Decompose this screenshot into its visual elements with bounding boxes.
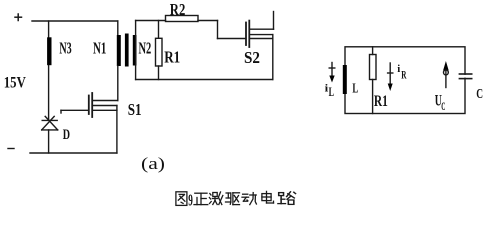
svg-text:9: 9 — [188, 191, 193, 210]
glyph 9 — [188, 191, 193, 210]
wire N3 top lead — [48, 21, 50, 37]
svg-text:N2: N2 — [139, 39, 152, 58]
svg-text:N1: N1 — [93, 39, 106, 58]
svg-text:R2: R2 — [170, 0, 186, 19]
capacitor C plates — [459, 74, 471, 79]
label S2 — [244, 48, 260, 67]
svg-text:R1: R1 — [164, 48, 180, 67]
node + (positive supply terminal label) — [15, 14, 22, 21]
svg-text:i: i — [397, 63, 400, 75]
capacitor C gap white-out — [463, 75, 468, 78]
glyph 图 — [176, 192, 187, 206]
wire R1 bottom lead — [158, 66, 160, 80]
svg-text:(a): (a) — [141, 154, 165, 173]
label N1 — [93, 39, 106, 58]
transformer core bar — [125, 34, 129, 67]
wire N1 bottom to S1 drain — [117, 66, 119, 101]
svg-text:R1: R1 — [374, 93, 388, 110]
wire S2 gate lead — [218, 38, 246, 40]
voltage arrow Uc — [443, 61, 449, 88]
wire N3 bottom to diode cathode — [48, 66, 50, 121]
svg-text:N3: N3 — [59, 38, 71, 57]
wire S1 gate lead — [61, 110, 88, 113]
diode D (cathode bar, triangle with crossed overshoot) — [42, 116, 58, 129]
glyph 动 — [242, 193, 256, 205]
winding N2 — [133, 35, 137, 66]
wire N2 top to R2 — [136, 20, 166, 22]
transistor S1 (MOSFET) — [89, 93, 118, 117]
label L — [352, 81, 358, 96]
wire R1 top lead (output side) — [372, 47, 374, 55]
winding N1 — [117, 35, 121, 66]
glyph 激 — [209, 192, 222, 205]
label iR — [397, 63, 406, 81]
svg-text:15V: 15V — [4, 74, 26, 91]
inductor L winding bar — [343, 65, 347, 94]
glyph 驱 — [226, 193, 240, 205]
glyph 正 — [194, 193, 208, 204]
node - (negative supply terminal label) — [8, 148, 14, 150]
svg-text:L: L — [352, 81, 358, 96]
svg-text:C: C — [476, 87, 483, 102]
label Uc — [435, 93, 446, 114]
wire bottom rail — [30, 152, 117, 154]
caption 图9正激驱动电路 (drawn glyphs) — [176, 191, 296, 210]
resistor R2 — [166, 16, 199, 22]
wire top rail from + to N1 top — [32, 20, 118, 22]
glyph 电 — [262, 191, 274, 203]
label R1 (output side) — [374, 93, 388, 110]
wire S2 drain up stub — [273, 12, 275, 30]
wire output loop box (right sub-circuit) — [345, 47, 465, 114]
winding N3 — [47, 37, 51, 65]
resistor R1 (output side) — [370, 55, 377, 80]
label N2 — [139, 39, 152, 58]
svg-text:D: D — [63, 127, 70, 143]
current arrow iR — [388, 63, 393, 91]
current arrow iL — [329, 63, 335, 83]
label R2 — [170, 0, 186, 19]
label C — [476, 87, 483, 102]
wire R2 right to corner — [198, 20, 218, 22]
label 15V — [4, 74, 26, 91]
svg-text:R: R — [401, 67, 406, 81]
label R1 — [164, 48, 180, 67]
wire R1 top lead — [158, 21, 160, 39]
wire S1 source to bottom rail — [116, 106, 118, 154]
label (a) — [141, 154, 165, 173]
wire diode anode to bottom rail — [48, 130, 50, 153]
label iL — [325, 82, 334, 99]
wire S2 source down — [272, 35, 274, 80]
resistor R1 (primary side) — [156, 38, 163, 66]
label D — [63, 127, 70, 143]
svg-text:S1: S1 — [128, 100, 142, 119]
svg-text:L: L — [329, 85, 334, 99]
label S1 — [128, 100, 142, 119]
wire N1 top lead — [117, 21, 119, 35]
label N3 — [59, 38, 71, 57]
transistor S2 (MOSFET) — [246, 21, 274, 47]
glyph 路 — [278, 192, 296, 205]
wire corner down — [217, 21, 219, 39]
wire R1 bottom lead (output side) — [372, 80, 374, 114]
svg-text:C: C — [441, 101, 445, 113]
wire N2 lead (top wire down to bottom wire) — [135, 21, 137, 80]
wire bottom of N2 loop to S2 source — [136, 79, 273, 81]
svg-text:S2: S2 — [244, 48, 260, 67]
